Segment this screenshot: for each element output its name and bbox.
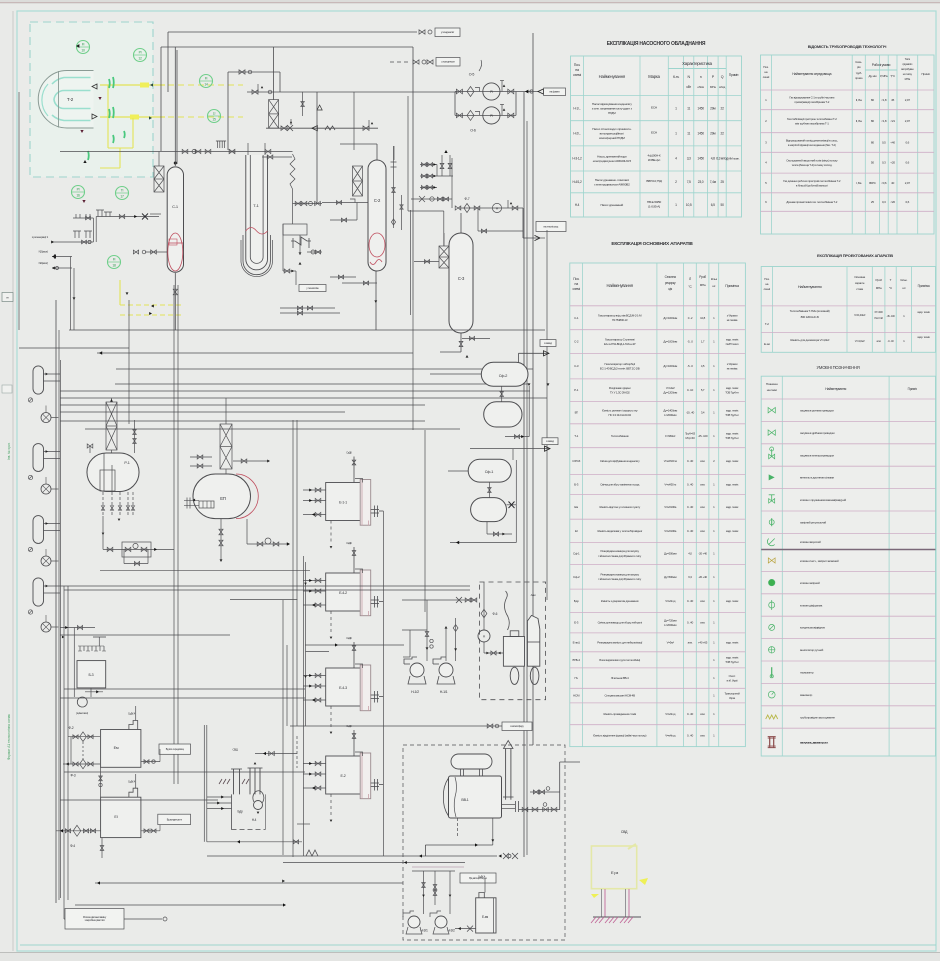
svg-text:Приміт.: Приміт. (908, 387, 918, 391)
svg-text:<20: <20 (890, 161, 895, 165)
svg-text:Т-2: Т-2 (765, 322, 769, 326)
svg-text:0...40: 0...40 (687, 482, 694, 486)
svg-text:електродвигуном АІМ100L6У3: електродвигуном АІМ100L6У3 (593, 159, 632, 163)
svg-text:FI: FI (113, 258, 116, 262)
svg-text:Поз.: Поз. (764, 277, 770, 281)
svg-text:Q: Q (721, 75, 724, 79)
svg-text:0,5: 0,5 (882, 141, 886, 145)
svg-text:V=м³/год: V=м³/год (665, 712, 676, 716)
svg-text:і зйомочні станка дотрібражног: і зйомочні станка дотрібражного типу (598, 554, 641, 558)
svg-text:1450: 1450 (697, 106, 704, 110)
svg-text:V=м³/100а: V=м³/100а (664, 529, 677, 533)
svg-text:12: 12 (138, 57, 142, 61)
svg-text:Т-1: Т-1 (574, 434, 578, 438)
svg-text:в завод: в завод (544, 342, 552, 345)
svg-text:Н-3/2: Н-3/2 (447, 929, 455, 933)
svg-text:Ду=1000мм: Ду=1000мм (663, 364, 677, 368)
svg-text:Е-зм: Е-зм (764, 342, 770, 346)
svg-text:3,3: 3,3 (687, 157, 691, 161)
svg-text:О-5: О-5 (469, 73, 475, 77)
svg-text:Н-1/1: Н-1/1 (440, 690, 448, 694)
svg-text:1450: 1450 (697, 132, 704, 136)
svg-text:Мтр=40: Мтр=40 (685, 436, 695, 440)
svg-text:Р-1: Р-1 (574, 388, 579, 392)
svg-text:Р, МПа: Р, МПа (880, 74, 888, 78)
svg-text:МПа: МПа (876, 286, 882, 290)
svg-text:конденсатовідвідник: конденсатовідвідник (800, 626, 826, 630)
svg-text:Спецавтомашині НСМ-4В: Спецавтомашині НСМ-4В (605, 694, 636, 698)
svg-text:ня тиску: ня тиску (903, 72, 913, 76)
svg-text:ВВ-1: ВВ-1 (461, 798, 468, 802)
svg-text:РІ: РІ (490, 90, 493, 94)
svg-text:<40: <40 (890, 141, 895, 145)
svg-text:№ЗП техніч: №ЗП техніч (726, 342, 739, 346)
svg-text:тепла (бачища Т-2) в схему гос: тепла (бачища Т-2) в схему господ. (792, 163, 833, 167)
svg-text:СкДК: СкДК (346, 636, 352, 640)
svg-text:гідравліч: гідравліч (902, 62, 912, 66)
svg-text:з млн. затримання котлу-друге: з млн. затримання котлу-друге з (592, 106, 633, 110)
svg-text:стика: стика (856, 287, 863, 291)
svg-text:Е-4-2: Е-4-2 (339, 591, 347, 595)
svg-text:Газосепаратор Ступеневі: Газосепаратор Ступеневі (605, 337, 635, 341)
svg-text:на: на (575, 68, 579, 72)
svg-text:Е-зм1: Е-зм1 (573, 640, 581, 644)
svg-text:нв техніка: нв техніка (727, 367, 738, 371)
svg-text:ЕС-1-43-ВСД-2-техніч. ВБТ 2С-2: ЕС-1-43-ВСД-2-техніч. ВБТ 2С-2/В (600, 367, 640, 371)
svg-text:схемі: схемі (573, 287, 581, 291)
svg-text:Ф-4: Ф-4 (70, 844, 75, 848)
svg-text:Газ стабілізації пристрою тепл: Газ стабілізації пристрою теплообмінни Т… (787, 117, 837, 121)
svg-text:Найменування: Найменування (798, 285, 822, 289)
svg-text:атмосферний ПГДМ: атмосферний ПГДМ (599, 136, 625, 140)
svg-text:Азм: Азм (531, 593, 536, 597)
svg-text:Ємність для дегазатора V=4,0м³: Ємність для дегазатора V=4,0м³ (790, 338, 829, 342)
svg-text:труб-: труб- (856, 71, 862, 75)
svg-text:Найменування: Найменування (607, 283, 633, 288)
svg-text:Поз.: Поз. (763, 65, 769, 69)
svg-text:-0...40: -0...40 (888, 339, 895, 343)
svg-text:V=м³/год: V=м³/год (665, 734, 676, 738)
svg-text:МПа: МПа (700, 283, 706, 287)
svg-text:Н-3/1: Н-3/1 (420, 929, 428, 933)
svg-text:Сезонна: Сезонна (665, 275, 677, 279)
svg-text:Б-3: Б-3 (89, 673, 94, 677)
svg-text:Насос дренажний води: Насос дренажний води (597, 154, 627, 158)
svg-text:Ем: Ем (574, 505, 578, 509)
svg-text:FI: FI (205, 77, 208, 81)
svg-text:Ф-6: Ф-6 (493, 612, 498, 616)
svg-text:Т-2: Т-2 (67, 97, 74, 102)
svg-text:термометр: термометр (800, 671, 814, 675)
svg-text:Ду=500мм: Ду=500мм (664, 552, 677, 556)
svg-text:ПГДМ: ПГДМ (608, 111, 616, 115)
svg-text:С-1: С-1 (574, 316, 579, 320)
svg-text:Насос стічної води з промисло-: Насос стічної води з промисло- (592, 127, 631, 131)
svg-text:кадр. технік: кадр. технік (726, 529, 739, 533)
svg-text:в більшій (робочий) ємності: в більшій (робочий) ємності (796, 183, 828, 187)
svg-text:ЕА-1-2791-ВСД-1-ГАЗ-н-1Р: ЕА-1-2791-ВСД-1-ГАЗ-н-1Р (604, 342, 636, 346)
svg-text:атм.: атм. (700, 482, 705, 486)
svg-text:ЕІ: ЕІ (575, 529, 578, 533)
svg-text:11: 11 (687, 106, 690, 110)
svg-text:С-1: С-1 (172, 204, 179, 209)
svg-text:випробуван: випробуван (901, 67, 914, 71)
svg-text:рія: рія (857, 65, 861, 69)
svg-text:ЕКСПЛІКАЦІЯ НАСОСНОГО ОБЛАДНАН: ЕКСПЛІКАЦІЯ НАСОСНОГО ОБЛАДНАННЯ (607, 41, 706, 47)
svg-text:-45...100: -45...100 (698, 434, 708, 438)
svg-text:0...40: 0...40 (687, 599, 694, 603)
svg-text:Теплообмінник: Теплообмінник (611, 434, 629, 438)
svg-text:Н-2/...: Н-2/... (573, 132, 581, 136)
svg-text:+40 +65: +40 +65 (698, 640, 708, 644)
svg-text:2,07: 2,07 (905, 98, 911, 102)
svg-text:-45...100: -45...100 (886, 315, 895, 318)
svg-text:нг: нг (6, 296, 8, 300)
svg-text:Сф-2: Сф-2 (573, 575, 580, 579)
svg-text:5,7: 5,7 (701, 388, 705, 392)
svg-text:PI: PI (139, 51, 142, 55)
svg-text:6,3: 6,3 (688, 575, 692, 579)
svg-text:N2(азот): N2(азот) (39, 261, 49, 265)
svg-text:кадр. технік: кадр. технік (726, 505, 739, 509)
svg-text:ІІ, Бa: ІІ, Бa (856, 98, 862, 102)
svg-text:клапан з пружинним виконав(зав: клапан з пружинним виконав(завд)-ий (800, 498, 847, 502)
svg-text:0...40: 0...40 (687, 712, 694, 716)
svg-text:кадр. технік: кадр. технік (726, 408, 739, 412)
svg-text:ТОВ Труб-нт: ТОВ Труб-нт (725, 413, 739, 417)
svg-text:0...10: 0...10 (687, 388, 694, 392)
svg-text:Насос відкачування конденсату: Насос відкачування конденсату (592, 102, 632, 106)
svg-text:1450: 1450 (697, 157, 704, 161)
svg-text:вентиль в дротяним сітками: вентиль в дротяним сітками (800, 476, 834, 480)
svg-text:атм: атм (877, 339, 881, 343)
svg-text:на схемі: на схемі (767, 388, 777, 392)
svg-text:0,3: 0,3 (882, 161, 886, 165)
svg-text:<1,8: <1,8 (881, 119, 887, 123)
svg-text:Бдр: Бдр (574, 599, 579, 603)
svg-text:0,6: 0,6 (906, 161, 910, 165)
svg-text:клапан счетч., запірні і запас: клапан счетч., запірні і запасний (800, 559, 839, 563)
svg-text:FI: FI (82, 43, 85, 47)
svg-text:Газ відпарювання С-1 в трубні: Газ відпарювання С-1 в трубні частини (789, 96, 834, 100)
svg-text:НВ-Е-50/50: НВ-Е-50/50 (647, 200, 662, 204)
svg-text:(димні гази): (димні гази) (76, 711, 88, 715)
svg-text:СкДК 4: СкДК 4 (478, 875, 486, 879)
svg-text:Ємність відстою у головного пу: Ємність відстою у головного пункту (599, 505, 640, 509)
svg-text:атм.: атм. (700, 712, 705, 716)
svg-text:Л: Л (689, 277, 691, 281)
svg-text:ВІДОМІСТЬ ТРУБОПРОВОДІВ ТЕХНОЛ: ВІДОМІСТЬ ТРУБОПРОВОДІВ ТЕХНОЛОГІЧ (808, 44, 887, 49)
svg-text:СкДК: СкДК (346, 541, 352, 545)
svg-text:Теплообмінник Т-П2м (головний): Теплообмінник Т-П2м (головний) (790, 309, 830, 313)
svg-text:Приміт.: Приміт. (921, 72, 930, 76)
svg-text:22: 22 (720, 106, 724, 110)
svg-text:25: 25 (720, 180, 724, 184)
svg-text:трубопровідне застосування: трубопровідне застосування (800, 715, 835, 719)
svg-text:V=м³/100 м: V=м³/100 м (664, 459, 677, 463)
svg-text:11: 11 (687, 132, 690, 136)
svg-text:Т,°С: Т,°С (890, 74, 895, 78)
svg-text:кадр. технік: кадр. технік (726, 482, 739, 486)
svg-text:СкДК 4: СкДК 4 (128, 781, 136, 784)
svg-text:10,5: 10,5 (686, 203, 692, 207)
svg-text:Приміт.: Приміт. (729, 73, 739, 77)
svg-text:ТОВ Труб-нт: ТОВ Труб-нт (725, 660, 739, 664)
svg-text:у конденсат: у конденсат (441, 30, 455, 34)
svg-text:і зйомочні станка дотрібражног: і зйомочні станка дотрібражного типу (598, 577, 641, 581)
svg-text:Ф-7: Ф-7 (465, 197, 470, 201)
svg-text:Рроб: Рроб (875, 278, 882, 282)
svg-text:Ду=1400мм: Ду=1400мм (663, 408, 677, 412)
svg-text:50: 50 (720, 203, 724, 207)
svg-text:7,4м: 7,4м (710, 180, 717, 184)
svg-text:на факел: на факел (549, 90, 560, 94)
svg-text:ЕКСПЛІКАЦІЯ ОСНОВНИХ АПАРАТІВ: ЕКСПЛІКАЦІЯ ОСНОВНИХ АПАРАТІВ (611, 241, 693, 247)
svg-text:Газосепаратор вхід. між ВСД М-: Газосепаратор вхід. між ВСД М-2-1-М (598, 313, 642, 317)
svg-text:Вд конденсат-в: Вд конденсат-в (167, 818, 183, 821)
svg-text:Очист.: Очист. (729, 674, 737, 678)
svg-text:0,6: 0,6 (906, 200, 910, 204)
svg-text:Дренаж промислових газ. теплоо: Дренаж промислових газ. теплообмінна Т-2 (786, 200, 837, 204)
svg-text:УМОВНІ ПОЗНАЧЕННЯ: УМОВНІ ПОЗНАЧЕННЯ (816, 365, 859, 370)
svg-text:-20 +40: -20 +40 (698, 575, 707, 579)
svg-text:Р-1: Р-1 (124, 461, 129, 465)
svg-text:Н-4: Н-4 (575, 203, 580, 207)
svg-text:на: на (764, 70, 767, 74)
svg-text:Примітка: Примітка (725, 284, 739, 288)
svg-text:С-2: С-2 (374, 198, 381, 203)
svg-text:<0,6: <0,6 (881, 181, 887, 185)
svg-text:ВВН3-0,75Д: ВВН3-0,75Д (646, 179, 662, 183)
svg-text:атм.: атм. (700, 734, 705, 738)
svg-text:СкДК 4: СкДК 4 (128, 713, 136, 716)
svg-text:ви конденсаційних і: ви конденсаційних і (600, 132, 625, 136)
svg-text:18: 18 (112, 264, 116, 268)
svg-text:у технологію: у технологію (306, 287, 319, 290)
svg-text:з виробництва №1: з виробництва №1 (84, 918, 105, 922)
svg-text:манометр: манометр (800, 693, 813, 697)
svg-text:7,5: 7,5 (687, 180, 691, 184)
svg-text:Найменування: Найменування (599, 74, 625, 79)
svg-text:схемі: схемі (764, 287, 771, 291)
svg-text:Б-3: Б-3 (574, 482, 579, 486)
svg-text:-10...40: -10...40 (686, 411, 695, 415)
svg-text:6,3 м/год: 6,3 м/год (716, 157, 728, 161)
svg-text:0...40: 0...40 (687, 459, 694, 463)
svg-text:0...2: 0...2 (688, 316, 693, 320)
svg-text:TI: TI (121, 189, 124, 193)
svg-text:в зб. Украї: в зб. Украї (727, 678, 738, 682)
svg-text:схемі: схемі (573, 73, 581, 77)
svg-text:клапан зворотній: клапан зворотній (800, 540, 821, 544)
svg-text:Н-4: Н-4 (252, 818, 257, 822)
svg-text:Примітка: Примітка (918, 284, 930, 288)
svg-text:V=0,43м³: V=0,43м³ (854, 313, 865, 317)
svg-text:Е рз: Е рз (611, 870, 618, 875)
svg-text:АІМ помп.: АІМ помп. (728, 157, 740, 161)
svg-text:ЕІ: ЕІ (114, 815, 117, 819)
svg-text:Ем: Ем (114, 746, 119, 750)
svg-text:Ємність з дзеркалом дренажних: Ємність з дзеркалом дренажних (601, 599, 639, 603)
svg-text:F=960м²: F=960м² (665, 434, 675, 438)
svg-text:Н-1/...: Н-1/... (573, 106, 581, 110)
svg-text:Свічка для збуту замінених пос: Свічка для збуту замінених посад (600, 482, 639, 486)
svg-text:О-6: О-6 (470, 129, 476, 133)
svg-text:L=2000мм: L=2000мм (664, 413, 676, 417)
svg-text:атм.: атм. (700, 529, 705, 533)
svg-text:29м: 29м (710, 132, 716, 136)
svg-text:Транспортний: Транспортний (724, 691, 740, 695)
svg-text:атм.: атм. (700, 505, 705, 509)
svg-text:Газ дихання робочих пристроїв: Газ дихання робочих пристроїв теплообмін… (783, 179, 841, 183)
svg-text:в нагрітий фракції охолодження: в нагрітий фракції охолодження (бач. Т-2… (788, 143, 836, 147)
svg-text:Рроб: Рроб (699, 275, 706, 279)
svg-text:кадр. технік: кадр. технік (726, 431, 739, 435)
svg-text:КОВЕ-фл: КОВЕ-фл (648, 158, 661, 162)
svg-text:LI: LI (213, 112, 216, 116)
svg-text:Вд вог. середовищ: Вд вог. середовищ (166, 748, 184, 751)
svg-text:Укрза: Укрза (729, 696, 736, 700)
svg-text:П1754800-13: П1754800-13 (612, 318, 628, 322)
svg-text:4,5: 4,5 (701, 364, 705, 368)
svg-text:С-3: С-3 (458, 276, 465, 281)
svg-text:Ду, мм: Ду, мм (868, 74, 876, 78)
svg-text:атм.: атм. (700, 459, 705, 463)
svg-text:<21: <21 (890, 119, 895, 123)
svg-text:Ду=1000мм: Ду=1000мм (663, 316, 677, 320)
svg-text:клапан діафрагма: клапан діафрагма (800, 603, 823, 607)
svg-text:ІІ, Бa: ІІ, Бa (856, 119, 862, 123)
svg-text:Блок видаткового (для теплообм: Блок видаткового (для теплообмін) (599, 658, 640, 662)
svg-text:С-2: С-2 (574, 340, 579, 344)
svg-text:22: 22 (720, 132, 724, 136)
svg-text:кадр. технік: кадр. технік (917, 335, 930, 339)
svg-text:6,5: 6,5 (711, 203, 715, 207)
svg-text:з/ Укрзахи: з/ Укрзахи (727, 362, 738, 366)
svg-text:0,6: 0,6 (906, 141, 910, 145)
svg-text:ВТ: ВТ (575, 411, 579, 415)
svg-text:14: 14 (204, 83, 208, 87)
svg-text:0...40: 0...40 (687, 529, 694, 533)
svg-text:Н-1/2: Н-1/2 (411, 690, 419, 694)
svg-text:засувка в електроприводом: засувка в електроприводом (800, 453, 834, 457)
svg-text:PI: PI (77, 188, 80, 192)
svg-text:Інв. № ориг.: Інв. № ориг. (7, 442, 11, 460)
svg-text:0,3: 0,3 (882, 200, 886, 204)
svg-text:ЕП: ЕП (220, 496, 226, 501)
svg-text:ТУ У 1,3С 09-002: ТУ У 1,3С 09-002 (610, 390, 630, 394)
svg-text:Лічильник ВВ-4: Лічильник ВВ-4 (611, 676, 629, 680)
svg-text:кадр. технік: кадр. технік (917, 310, 930, 314)
svg-text:між трубним газозбірника Т-1: між трубним газозбірника Т-1 (795, 122, 829, 126)
svg-text:Охолоджений зворотний потік (м: Охолоджений зворотний потік (мінус) пото… (786, 159, 838, 163)
svg-text:3,4: 3,4 (701, 411, 705, 415)
svg-text:Ємність видаткова у теплообпро: Ємність видаткова у теплообпровідної (597, 529, 642, 533)
svg-text:ТОВ Труб-нт: ТОВ Труб-нт (725, 436, 739, 440)
svg-text:V=м³/50 м: V=м³/50 м (664, 482, 676, 486)
svg-text:атм.: атм. (700, 599, 705, 603)
svg-text:кадр. технік: кадр. технік (726, 640, 739, 644)
svg-text:Насос дренажно- помпової: Насос дренажно- помпової (595, 178, 629, 182)
svg-text:-20 +40: -20 +40 (698, 552, 707, 556)
svg-text:ТОВ Труб-нт: ТОВ Труб-нт (725, 390, 739, 394)
svg-text:Формат А1 технологічна схема: Формат А1 технологічна схема (7, 714, 11, 760)
svg-text:кадр. технік: кадр. технік (726, 337, 739, 341)
svg-text:атм.: атм. (700, 621, 705, 625)
svg-text:запірний регулюючий: запірний регулюючий (800, 521, 827, 525)
svg-text:ЕКСПЛІКАЦІЯ ПРОЕКТОВАНИХ АПАРА: ЕКСПЛІКАЦІЯ ПРОЕКТОВАНИХ АПАРАТІВ (817, 253, 893, 258)
svg-text:С-3: С-3 (574, 364, 579, 368)
svg-text:80РС: 80РС (869, 181, 877, 185)
svg-text:Н-3-1,2: Н-3-1,2 (572, 157, 582, 161)
svg-text:0...40: 0...40 (687, 734, 694, 738)
svg-text:10: 10 (81, 49, 85, 53)
svg-text:засувка в дрібним приводом: засувка в дрібним приводом (800, 431, 835, 435)
svg-text:заглушка, двозаглушка: заглушка, двозаглушка (800, 740, 828, 744)
svg-text:4ф100Н-К: 4ф100Н-К (648, 154, 661, 158)
svg-text:Сф-2: Сф-2 (499, 374, 508, 378)
svg-text:Ф-3: Ф-3 (71, 774, 76, 778)
svg-text:Ду=1200мм: Ду=1200мм (663, 390, 677, 394)
svg-text:23,0: 23,0 (698, 180, 704, 184)
svg-text:Насос дренажний: Насос дренажний (601, 203, 624, 207)
svg-text:вентилятор ручний: вентилятор ручний (800, 648, 824, 652)
svg-text:Свічка для відбування конденса: Свічка для відбування конденсату (600, 459, 640, 463)
svg-text:в атмосферу: в атмосферу (510, 724, 524, 728)
svg-text:атм.: атм. (688, 640, 693, 644)
svg-text:<1,8: <1,8 (881, 98, 887, 102)
svg-text:V=14м³: V=14м³ (666, 386, 675, 390)
svg-text:Ду=500мм: Ду=500мм (664, 575, 677, 579)
svg-text:1,7: 1,7 (701, 340, 705, 344)
svg-text:МПа: МПа (905, 77, 911, 81)
svg-text:на очисні спор.: на очисні спор. (543, 224, 559, 228)
svg-text:НСМ: НСМ (573, 694, 580, 698)
svg-text:нв техніка: нв техніка (727, 318, 738, 322)
svg-text:n: n (700, 75, 702, 79)
svg-text:Рт=400: Рт=400 (875, 310, 884, 314)
svg-text:17: 17 (120, 195, 124, 199)
svg-text:Е-зм: Е-зм (482, 915, 488, 919)
svg-text:10,8: 10,8 (700, 316, 705, 320)
svg-text:Свічка для викиду для збору, н: Свічка для викиду для збору, нейтралі (598, 621, 643, 625)
svg-text:кадр. технік: кадр. технік (726, 599, 739, 603)
svg-text:N2(азот): N2(азот) (39, 250, 49, 254)
svg-text:Ємність провадження стоків: Ємність провадження стоків (603, 712, 636, 716)
svg-text:на: на (575, 282, 579, 286)
svg-text:Основна: Основна (854, 275, 865, 279)
svg-text:V=м³/100а: V=м³/100а (664, 505, 677, 509)
svg-text:Поз.: Поз. (573, 277, 579, 281)
svg-text:Рмт=42: Рмт=42 (874, 316, 883, 320)
svg-text:-5...0: -5...0 (687, 364, 693, 368)
svg-text:в завод: в завод (546, 440, 554, 443)
svg-text:Поз.: Поз. (574, 63, 581, 67)
svg-text:Ду=720мм: Ду=720мм (664, 618, 677, 622)
svg-text:Ф-2: Ф-2 (69, 726, 74, 730)
svg-text:2,07: 2,07 (905, 119, 911, 123)
svg-text:0...40: 0...40 (687, 621, 694, 625)
svg-text:у конденсат: у конденсат (441, 60, 455, 64)
svg-text:С/РСЗ: С/РСЗ (572, 459, 580, 463)
svg-text:кадр. технік: кадр. технік (726, 386, 739, 390)
svg-text:Е-3: Е-3 (574, 621, 579, 625)
svg-text:Найменування: Найменування (825, 387, 846, 391)
svg-text:Робочі умови: Робочі умови (872, 63, 891, 67)
svg-text:Марка: Марка (648, 74, 660, 79)
svg-text:Е-2: Е-2 (341, 774, 346, 778)
svg-text:з/ Укрзахи: з/ Укрзахи (727, 313, 738, 317)
